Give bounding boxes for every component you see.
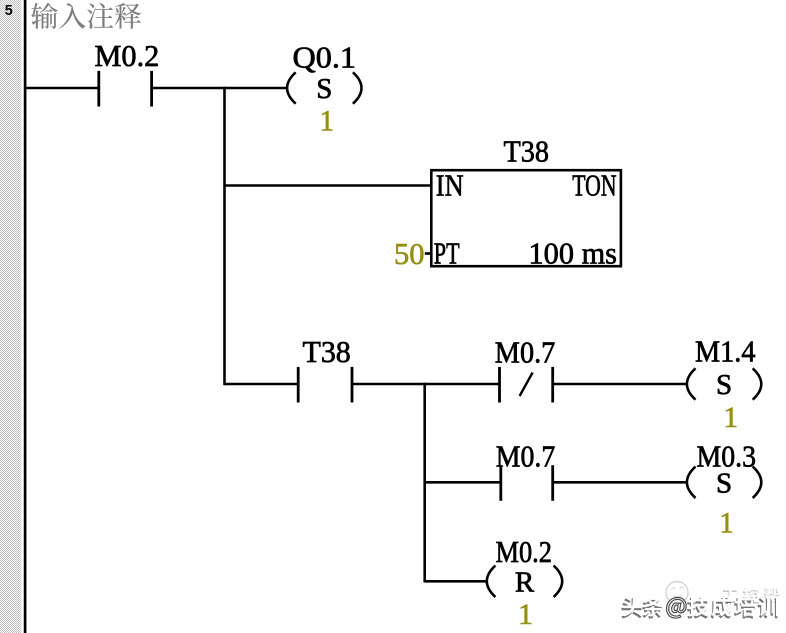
- svg-text:1: 1: [723, 402, 738, 434]
- wire branch to T38 contact: [225, 383, 298, 386]
- wire M0.7 to M0.3 coil: [553, 481, 687, 484]
- wire M0.7 to M1.4 coil: [553, 383, 687, 386]
- wire T38 to M0.7: [352, 383, 498, 386]
- coil Q0.1 ( S ): [287, 72, 361, 105]
- wire M0.2 to Q0.1 coil: [152, 87, 287, 90]
- wire rail to M0.2: [26, 87, 97, 90]
- network comment 输入注释: [31, 3, 141, 29]
- svg-text:M1.4: M1.4: [695, 334, 756, 369]
- branch vertical 2: [423, 383, 426, 583]
- watermark @ sign: [667, 597, 687, 618]
- svg-text:M0.7: M0.7: [496, 439, 556, 474]
- svg-text:R: R: [515, 566, 535, 598]
- svg-text:M0.7: M0.7: [495, 335, 556, 370]
- watermark faint 工控帮 white: [723, 586, 781, 602]
- contact M0.7: [501, 465, 553, 501]
- timer box T38 TON: [431, 170, 621, 266]
- wire branch to M0.2 R coil: [425, 580, 487, 583]
- branch vertical from rung1: [223, 87, 226, 385]
- svg-text:S: S: [716, 369, 732, 401]
- svg-text:S: S: [716, 467, 732, 499]
- contact T38: [298, 367, 352, 403]
- wire branch to M0.7 #2: [425, 481, 500, 484]
- svg-text:PT: PT: [434, 236, 460, 271]
- svg-text:M0.2: M0.2: [496, 534, 553, 569]
- watermark 头条技成培训 white: [622, 596, 778, 617]
- stub 50 to PT: [425, 252, 430, 255]
- svg-text:T38: T38: [303, 334, 351, 369]
- svg-text:50: 50: [394, 237, 425, 271]
- coil M1.4 ( S ): [687, 368, 761, 401]
- network margin strip: [0, 0, 21, 633]
- svg-text:IN: IN: [436, 167, 464, 202]
- wire to TON IN: [225, 184, 431, 187]
- svg-text:1: 1: [719, 508, 734, 540]
- svg-text:5: 5: [5, 3, 13, 19]
- svg-text:Q0.1: Q0.1: [293, 40, 357, 75]
- svg-text:1: 1: [518, 599, 533, 631]
- coil M0.2 R ( R ): [487, 566, 562, 599]
- svg-text:100 ms: 100 ms: [529, 236, 618, 271]
- watermark logo circle: [666, 582, 688, 604]
- watermark 头条技成培训 shadow: [621, 598, 777, 619]
- svg-text:TON: TON: [572, 167, 616, 202]
- svg-text:M0.2: M0.2: [95, 38, 160, 73]
- contact M0.7 NC: [500, 367, 553, 403]
- left power rail: [24, 0, 27, 633]
- coil M0.3 ( S ): [687, 467, 761, 500]
- watermark faint 工控帮 shadow: [722, 588, 780, 604]
- svg-text:S: S: [316, 73, 332, 105]
- contact M0.2: [99, 71, 152, 107]
- svg-text:1: 1: [319, 106, 334, 138]
- svg-text:T38: T38: [504, 134, 550, 169]
